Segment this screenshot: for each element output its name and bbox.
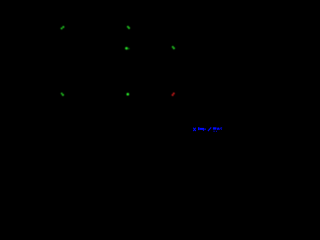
LED D2 (green, top-middle, diagonal \) <box>127 26 130 29</box>
LED D3 (green, middle, round with smear) <box>125 47 130 50</box>
LED D1 (green, top-left, diagonal /) <box>61 26 65 29</box>
signature watermark (blue, pixelated italic "X Jung / RW") <box>193 127 222 131</box>
word blob "ung" <box>200 128 204 130</box>
glyph J stem <box>198 127 199 130</box>
glyph W zigzag <box>217 128 222 130</box>
LED D4 (green, mid-right, diagonal \) <box>172 46 175 49</box>
LED D6 (green, bottom-middle, round) <box>127 93 130 96</box>
LED D7 (red, bottom-right, diagonal /) <box>172 93 175 96</box>
LED D5 (green, bottom-left, diagonal \) <box>61 93 64 96</box>
glyph X <box>193 128 196 131</box>
slash / <box>208 127 211 131</box>
glyph R blob <box>213 127 216 129</box>
